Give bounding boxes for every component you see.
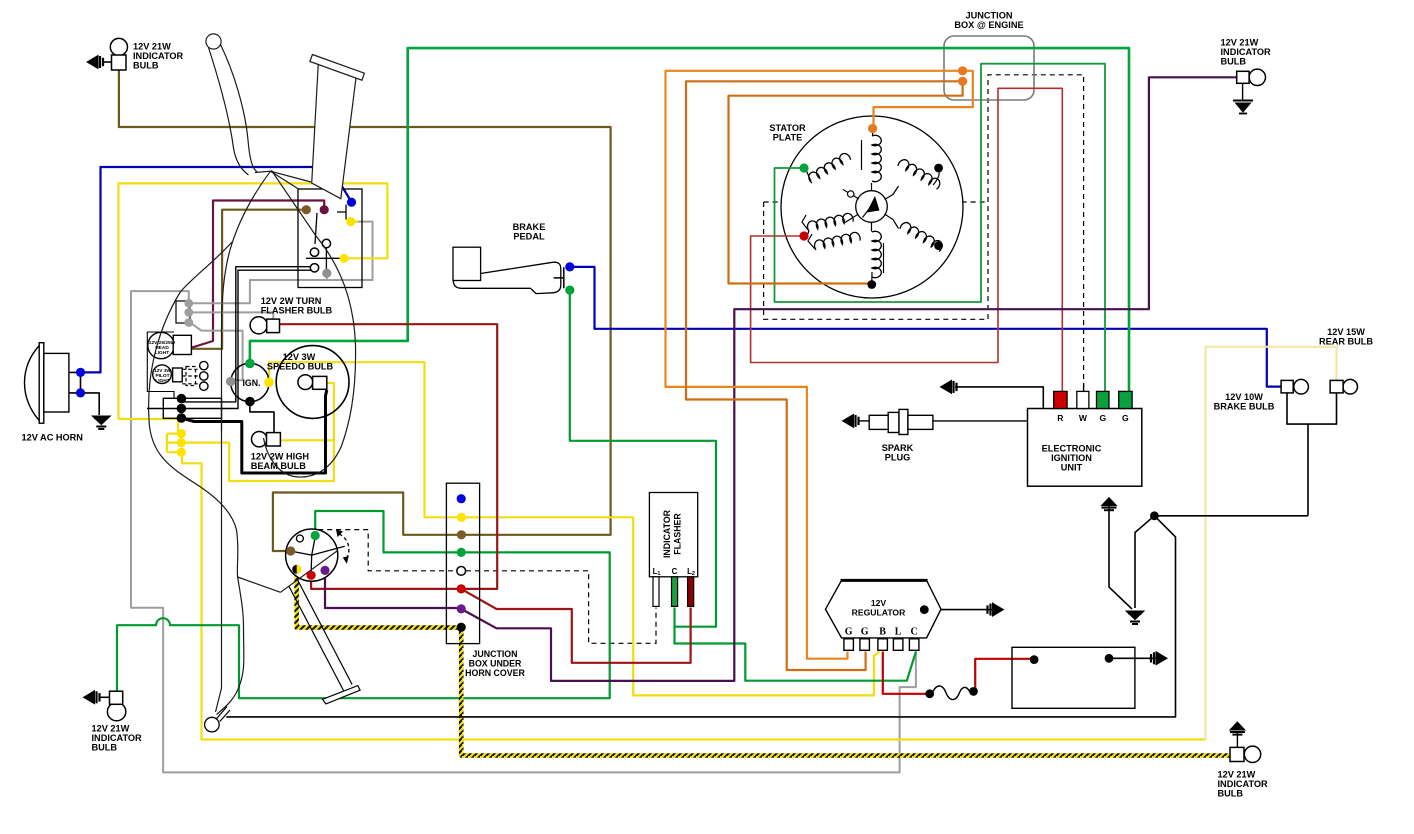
twist grip tube bbox=[312, 63, 356, 198]
brake lever ball bbox=[206, 34, 221, 49]
svg-text:12V 2W TURN: 12V 2W TURN bbox=[261, 296, 322, 306]
EIU terminal G2 bbox=[1119, 391, 1132, 408]
node frame junction bbox=[1150, 511, 1159, 520]
svg-text:REGULATOR: REGULATOR bbox=[852, 608, 906, 618]
node ignition grey bbox=[226, 377, 236, 387]
node ignition yellow bbox=[264, 378, 274, 388]
svg-text:12V 3W: 12V 3W bbox=[283, 352, 316, 362]
svg-text:PLATE: PLATE bbox=[773, 133, 802, 143]
stator coil lower-right bbox=[899, 221, 944, 252]
node brake pedal blue bbox=[565, 262, 574, 271]
svg-text:HORN COVER: HORN COVER bbox=[465, 668, 525, 678]
node black connector 1 bbox=[177, 394, 187, 404]
wire purple: rotary switch to junction box to top-right indicator bulb bbox=[325, 77, 1237, 681]
bulb top-right 12V 21W indicator bbox=[1237, 69, 1266, 99]
svg-text:JUNCTION: JUNCTION bbox=[966, 11, 1013, 21]
wire yellow: feed to bulb connector comb bbox=[119, 419, 181, 452]
node junction green bbox=[457, 548, 466, 557]
svg-text:BRAKE: BRAKE bbox=[513, 222, 546, 232]
wire yellow: comb to bottom run to rear bulb bbox=[182, 452, 1206, 739]
ground regulator arrow right bbox=[988, 603, 1004, 616]
wire dark red: junction box to indicator flasher L2 bbox=[461, 589, 690, 663]
speedometer circle bbox=[276, 346, 349, 419]
wire green: stator lighting coil to EIU G bbox=[775, 64, 1106, 392]
ground top-left bulb bbox=[87, 56, 103, 69]
node horn blue 1 bbox=[76, 368, 85, 377]
label electronic ignition unit bbox=[1042, 444, 1102, 473]
wire black: ignition switch to high beam bulb bbox=[250, 403, 274, 433]
ground EIU wire arrow bbox=[941, 380, 957, 393]
node grey connector 3 bbox=[184, 318, 193, 327]
svg-text:IGNITION: IGNITION bbox=[1051, 453, 1092, 463]
flasher terminal stubs L1 C L2 bbox=[653, 577, 659, 607]
ground spark plug bbox=[843, 414, 859, 427]
node junction red bbox=[457, 584, 466, 593]
wire orange dark: engine junction to stator and regulator G2 bbox=[686, 81, 963, 670]
wire grey: connector to ignition switch bbox=[190, 323, 243, 381]
wire grey: connector to turn flasher bulb bbox=[190, 312, 273, 319]
node stator orange bbox=[868, 124, 877, 133]
brake pedal bbox=[453, 247, 564, 293]
node junction purple bbox=[457, 604, 466, 613]
node rotary brown bbox=[286, 546, 295, 555]
svg-text:G: G bbox=[845, 627, 853, 638]
brake lever blade bbox=[221, 45, 258, 173]
node black connector 2 bbox=[177, 404, 187, 414]
svg-text:INDICATOR: INDICATOR bbox=[133, 51, 184, 61]
svg-text:12V 21W: 12V 21W bbox=[133, 42, 171, 52]
svg-text:G: G bbox=[861, 627, 869, 638]
svg-text:JUNCTION: JUNCTION bbox=[473, 649, 518, 659]
wire yellow: comb to speedo bulb and high beam bulb bbox=[182, 383, 334, 481]
switch internal contacts bbox=[306, 205, 346, 273]
svg-text:INDICATOR: INDICATOR bbox=[662, 509, 672, 558]
bulb 12V 2W turn flasher bbox=[250, 317, 279, 334]
svg-text:BULB: BULB bbox=[133, 61, 159, 71]
node horn blue 2 bbox=[76, 388, 85, 397]
node engine junction orange 1 bbox=[958, 66, 967, 75]
EIU terminal W bbox=[1077, 391, 1089, 408]
node grey connector 2 bbox=[184, 308, 193, 317]
node switch grey bbox=[322, 269, 331, 278]
battery box bbox=[1012, 647, 1135, 708]
node stator black bottom bbox=[867, 280, 876, 289]
node switch yellow lower bbox=[339, 254, 348, 263]
node ignition black bbox=[245, 397, 255, 407]
wire black: fuse squiggle bbox=[932, 686, 970, 700]
node junction blue bbox=[457, 494, 466, 503]
svg-text:G: G bbox=[1122, 413, 1129, 423]
wire orange: engine junction to stator feed and regulator G1 bbox=[666, 71, 973, 659]
svg-text:INDICATOR: INDICATOR bbox=[1221, 47, 1272, 57]
ignition switch circle bbox=[231, 363, 269, 401]
EIU terminal R bbox=[1054, 391, 1067, 408]
electronic ignition unit box bbox=[1028, 409, 1142, 487]
svg-text:SPEEDO BULB: SPEEDO BULB bbox=[267, 362, 334, 372]
node fuse left bbox=[925, 689, 934, 698]
wire green: ignition switch to EIU G (long top run) bbox=[250, 48, 1129, 391]
wire black: battery negative to ground bbox=[1109, 657, 1157, 659]
node stator red bbox=[799, 231, 808, 240]
svg-text:W: W bbox=[1079, 413, 1088, 423]
node switch blue bbox=[347, 198, 356, 207]
ground chassis down arrow bbox=[1126, 611, 1144, 624]
wire blue: horn to handlebar switch bbox=[82, 167, 352, 372]
node stator black right bottom bbox=[934, 241, 943, 250]
node yellow comb 2 bbox=[177, 438, 186, 447]
stator coil top bbox=[872, 135, 881, 181]
node fuse right bbox=[969, 687, 978, 696]
label indicator flasher rotated bbox=[662, 509, 683, 558]
stator spokes bbox=[843, 183, 899, 232]
node junction yellow bbox=[457, 513, 466, 522]
node grey connector 1 bbox=[184, 299, 193, 308]
headlight 12V 25/25W bbox=[148, 332, 192, 358]
stator coil tails to terminals bbox=[806, 131, 939, 282]
node rotary green bbox=[311, 531, 320, 540]
wire blue: brake pedal to rear brake bulb bbox=[571, 267, 1281, 387]
node rotary purple bbox=[320, 566, 329, 575]
wire grey: connector bus to regulator C terminal (long run) bbox=[131, 291, 916, 772]
ground under EIU up arrow bbox=[1102, 498, 1117, 511]
svg-text:BOX @ ENGINE: BOX @ ENGINE bbox=[954, 20, 1023, 30]
handlebar joint lines bbox=[255, 171, 311, 189]
node ignition green bbox=[245, 359, 255, 369]
wire green: brake pedal to flasher C and regulator C bbox=[570, 292, 916, 681]
wire black: EIU case ground bbox=[955, 387, 1043, 409]
bulb top-left 12V 21W indicator bbox=[103, 38, 128, 70]
svg-text:UNIT: UNIT bbox=[1061, 463, 1083, 473]
bulb 12V 15W rear bbox=[1330, 379, 1357, 394]
node yellow comb 3 bbox=[177, 448, 186, 457]
dashed link rotary switch to flasher L1 via junction white terminal bbox=[318, 530, 656, 644]
label headlight tiny bbox=[149, 340, 176, 356]
headset cowl curve bbox=[264, 170, 356, 477]
bulb bottom-right 12V 21W indicator bbox=[1230, 731, 1261, 763]
label junction box under horn cover bbox=[465, 649, 525, 678]
node battery negative bbox=[1105, 654, 1114, 663]
stator coil upper-right bbox=[897, 158, 942, 190]
svg-text:INDICATOR: INDICATOR bbox=[92, 733, 143, 743]
wire dark red: turn flasher bulb to junction box and rotary switch bbox=[280, 324, 498, 589]
pilot light 12V 3W bbox=[153, 365, 183, 384]
svg-text:LIGHT: LIGHT bbox=[155, 350, 169, 356]
regulator 12V hexagon bbox=[826, 580, 942, 638]
wire green: rotary light switch to junction box and tail circuit bbox=[117, 511, 610, 698]
svg-text:BOX UNDER: BOX UNDER bbox=[469, 659, 522, 669]
ground top-right bulb bbox=[1233, 101, 1253, 114]
bulb 12V 10W brake bbox=[1281, 379, 1308, 394]
handlebar switch box bbox=[298, 189, 362, 288]
svg-text:C: C bbox=[672, 567, 678, 576]
body fork line from handlebar to wheel bbox=[216, 171, 271, 712]
dashed connector at pilot light bbox=[182, 367, 199, 386]
EIU terminal G1 bbox=[1097, 391, 1110, 408]
wire brown: handlebar switch to headlight low beam bbox=[191, 210, 304, 349]
spark plug bbox=[858, 409, 1028, 434]
svg-text:12V: 12V bbox=[871, 598, 887, 608]
connector open circles at pilot bbox=[200, 361, 208, 390]
stator coil bottom bbox=[872, 231, 881, 277]
wire black: regulator case ground bbox=[924, 609, 994, 611]
bulb 12V 3W speedo bbox=[298, 375, 327, 390]
svg-text:12V AC HORN: 12V AC HORN bbox=[22, 433, 84, 443]
svg-text:BULB: BULB bbox=[1221, 57, 1247, 67]
wire black thick: connector to speedo bulb body bbox=[183, 390, 327, 473]
svg-text:BEAM BULB: BEAM BULB bbox=[251, 461, 306, 471]
wire black: frame dot to chassis grounds bbox=[1109, 506, 1154, 609]
svg-text:REAR BULB: REAR BULB bbox=[1319, 337, 1373, 347]
node stator black right top bbox=[934, 164, 943, 173]
node junction white bbox=[457, 567, 466, 576]
lower body panel lines bbox=[238, 551, 337, 592]
ground bottom-left bulb bbox=[84, 691, 100, 704]
svg-text:BRAKE BULB: BRAKE BULB bbox=[1214, 402, 1275, 412]
wire grey: handlebar switch loop to grey connector bus bbox=[190, 222, 373, 304]
front wheel hub circle bbox=[205, 717, 220, 732]
node black connector 3 bbox=[177, 413, 187, 423]
wire yellow: headset loom rectangle bbox=[119, 183, 388, 419]
node switch brown bbox=[302, 205, 311, 214]
svg-text:BULB: BULB bbox=[1218, 789, 1244, 799]
svg-text:BULB: BULB bbox=[92, 743, 118, 753]
node stator green bbox=[799, 163, 808, 172]
node rotary yellow-black bbox=[292, 565, 297, 574]
node junction brown bbox=[457, 530, 466, 539]
ground bottom-right bulb bbox=[1230, 722, 1245, 735]
svg-text:G: G bbox=[1099, 413, 1106, 423]
svg-text:12V 10W: 12V 10W bbox=[1225, 392, 1263, 402]
wire yellow: ignition switch to junction box and regulator B bbox=[269, 362, 880, 695]
svg-text:L: L bbox=[895, 627, 902, 638]
body legshield curve bbox=[149, 242, 244, 715]
svg-text:C: C bbox=[910, 627, 917, 638]
bulb bottom-left 12V 21W indicator bbox=[100, 691, 126, 721]
node brake pedal green bbox=[565, 286, 574, 295]
wire hatched yellow-black: rotary switch to junction box to bottom-right indicator bulb bbox=[297, 570, 1230, 756]
wire black: floor earth run rear bulbs to frame bbox=[226, 393, 1336, 717]
node battery positive bbox=[1030, 655, 1039, 664]
horn 12V AC bbox=[25, 343, 69, 424]
stator coils lower-left pair bbox=[806, 212, 853, 231]
svg-text:SPARK: SPARK bbox=[882, 443, 914, 453]
wire red: regulator B to fuse to battery bbox=[883, 652, 1033, 694]
svg-text:12V 21W: 12V 21W bbox=[1218, 770, 1256, 780]
wire yellow pale: riser to rear bulb bbox=[1206, 347, 1337, 740]
label EIU terminals R W G G bbox=[1057, 413, 1129, 423]
wire maroon: handlebar switch to headlight high beam bbox=[192, 201, 324, 348]
svg-text:ELECTRONIC: ELECTRONIC bbox=[1042, 444, 1102, 454]
stator coil upper-left bbox=[807, 151, 852, 183]
junction box under horn cover bbox=[446, 483, 479, 643]
label regulator terminals G G B L C bbox=[845, 627, 918, 638]
bulb 12V 2W high beam bbox=[252, 432, 281, 447]
node switch maroon bbox=[320, 205, 329, 214]
headlamp housing outline bbox=[147, 332, 174, 398]
node regulator case bbox=[920, 605, 929, 614]
svg-text:FLASHER: FLASHER bbox=[673, 513, 683, 555]
wire black: dimmer cable pair handlebar to connector bbox=[147, 267, 317, 409]
node junction black bbox=[457, 623, 466, 632]
stator plate assembly bbox=[781, 116, 963, 298]
junction box at engine bbox=[944, 36, 1034, 100]
regulator terminal squares G G B L C bbox=[844, 639, 919, 651]
label flasher terminals L1 C L2 bbox=[653, 567, 695, 577]
svg-text:12V 21W: 12V 21W bbox=[1221, 38, 1259, 48]
svg-text:PLUG: PLUG bbox=[885, 453, 911, 463]
svg-text:STATOR: STATOR bbox=[769, 123, 806, 133]
svg-text:12V 2W HIGH: 12V 2W HIGH bbox=[251, 452, 310, 462]
node rotary red bbox=[307, 571, 316, 580]
svg-text:LIGHT: LIGHT bbox=[155, 378, 169, 384]
svg-text:INDICATOR: INDICATOR bbox=[1218, 779, 1269, 789]
wire black: horn ground bbox=[69, 372, 99, 415]
wire red: stator ignition coil to EIU R terminal bbox=[751, 88, 1063, 391]
node yellow comb 1 bbox=[177, 429, 186, 438]
svg-text:B: B bbox=[879, 627, 886, 638]
node switch yellow upper bbox=[346, 217, 355, 226]
wire yellow: stub at switch yellow terminal bbox=[351, 221, 358, 223]
svg-text:IGN.: IGN. bbox=[242, 378, 260, 388]
kickstart lever bbox=[289, 580, 360, 704]
svg-text:R: R bbox=[1057, 413, 1064, 423]
svg-text:12V 15W: 12V 15W bbox=[1327, 327, 1365, 337]
svg-text:12V 21W: 12V 21W bbox=[92, 724, 130, 734]
ground battery arrow right bbox=[1151, 652, 1167, 665]
ground horn bbox=[92, 416, 110, 429]
indicator flasher unit bbox=[649, 493, 697, 577]
rotary light switch bbox=[286, 529, 338, 581]
connector block black terminals bbox=[163, 398, 221, 418]
node engine junction orange 2 bbox=[958, 77, 967, 86]
connector block grey terminals bbox=[176, 301, 190, 323]
svg-text:PEDAL: PEDAL bbox=[513, 232, 545, 242]
dashed engine boundary bbox=[764, 75, 1084, 392]
wire brown: top-left indicator bulb to junction box brown terminal and rotary switch bbox=[119, 70, 611, 551]
svg-text:FLASHER BULB: FLASHER BULB bbox=[261, 306, 333, 316]
label pilot light tiny bbox=[154, 368, 172, 384]
